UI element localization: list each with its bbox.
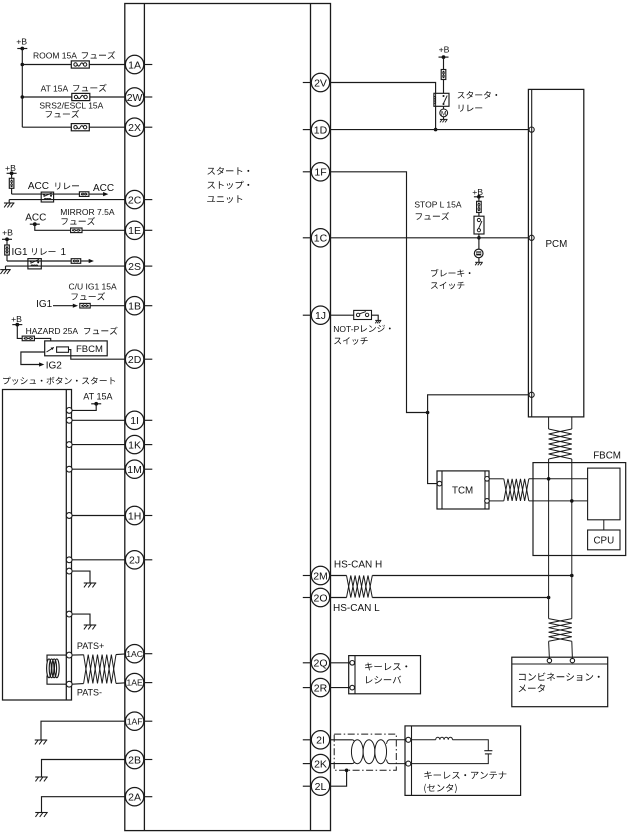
svg-text:IG1: IG1 [12,247,29,258]
wire pin 2K to antenna [330,763,352,765]
connector pin 1F [303,163,330,181]
junction dot CAN H bus [570,574,574,578]
wire NOT-P switch to ground [372,315,379,320]
fuse ACC output [79,192,89,197]
label fuse AT JP [73,84,107,92]
wire +B to ACC relay [11,173,13,194]
wire pin 2V to starter relay [330,83,436,130]
svg-text:1D: 1D [314,124,328,136]
antenna pin 1 [406,737,411,742]
svg-text:1H: 1H [128,510,141,522]
connector pin 2S [125,257,152,275]
NOT-P range switch box [354,310,372,319]
wire to pin 1A [22,64,125,66]
svg-text:CPU: CPU [593,536,614,547]
twisted pair HS-CAN [347,576,373,598]
svg-text:ACC: ACC [28,181,49,192]
TCM pin right 1 [485,477,490,482]
wire fuse to FBCM driver [34,338,50,346]
resistor in FBCM [57,347,69,352]
wire to pin 2X [22,126,125,128]
battery +B starter [439,45,450,59]
svg-text:1: 1 [61,247,67,258]
svg-text:FBCM: FBCM [76,344,103,355]
svg-text:2K: 2K [314,758,327,770]
battery +B node 4 [11,314,22,327]
ground IG1 relay coil [0,266,11,274]
ground ACC relay coil [4,200,15,208]
svg-text:2Q: 2Q [313,658,327,670]
FBCM transceiver block [588,468,620,520]
connector pin 2D [125,350,152,368]
ground brake switch [475,258,483,266]
svg-text:PATS+: PATS+ [77,641,104,651]
connector pin 2M [303,566,330,584]
receiver pin 1 [350,661,355,666]
svg-text:1K: 1K [128,439,141,451]
wire TCM CAN H [489,478,504,480]
connector pin 2V [303,73,330,91]
svg-text:C/U IG1 15A: C/U IG1 15A [69,282,118,292]
label IG1 relay 1 [12,247,67,258]
wire to pin 2W [22,96,125,98]
PCM pin 3 [529,392,534,397]
label keyless receiver [365,663,407,684]
wire +B to IG1 relay [6,239,8,261]
svg-text:1AF: 1AF [127,716,143,726]
switch pin f [66,557,72,563]
connector pin 2A [125,788,152,806]
svg-text:AT 15A: AT 15A [41,83,69,93]
svg-text:ROOM 15A: ROOM 15A [33,51,77,61]
connector pin 1AF [125,712,152,730]
switch pin c [66,442,72,448]
wire HS-CAN L to bus [372,597,548,599]
svg-text:+B: +B [5,163,16,173]
label push button start [3,377,115,385]
capacitor antenna [411,751,493,764]
wire IG1 relay coil to pin 2S [6,265,126,267]
junction dot 2V/1D [434,128,438,132]
connector pin 1J [303,306,330,324]
wire CAN H into FBCM internal [529,478,588,480]
junction dot ROOM branch [21,63,25,67]
svg-text:1AE: 1AE [126,678,143,688]
label starter relay [458,91,498,112]
wire pin 2M HS-CAN H [330,575,347,577]
switch pin PATS- [66,681,72,687]
svg-text:1M: 1M [127,464,142,476]
wire driver to pin 2D [69,350,126,360]
wire fuse to pin 1B [90,305,125,307]
svg-text:2O: 2O [313,592,327,604]
connector pin 1B [125,297,152,315]
svg-text:1AC: 1AC [126,649,143,659]
wire CAN H into FBCM [548,459,550,556]
svg-text:+B: +B [16,37,27,47]
connector pin 2X [125,118,152,136]
ground 1AF [35,739,48,741]
svg-text:PCM: PCM [546,239,568,250]
svg-text:1A: 1A [128,59,141,71]
svg-text:+B: +B [2,227,13,237]
wire pin 1J to NOT-P switch [330,314,354,316]
connector pin 2I [303,731,330,749]
fuse MIRROR 7.5A [60,207,115,233]
svg-text:1C: 1C [314,233,328,245]
wire CAN L into FBCM internal [529,500,588,502]
wire pin 2I to antenna [330,739,352,741]
wire arrow to ACC feed [89,192,108,196]
connector pin 1AE [125,673,152,691]
connector pin 2C [125,190,152,208]
svg-text:TCM: TCM [452,486,473,497]
connector pin 1H [125,506,152,524]
transistor driver in FBCM [47,347,54,352]
connector pin 1A [125,55,152,73]
CPU box [588,530,620,550]
switch pin e [66,513,72,519]
brake switch box [474,216,484,234]
TCM pin left [437,481,442,486]
svg-text:NOT-P: NOT-P [333,324,359,334]
wire +B to fuse STOP L [478,197,480,202]
wire to ground 1 [72,571,90,583]
meter pin 2 [570,658,574,662]
wire CAN L to meter [571,641,574,658]
connector pin 2O [303,588,330,606]
connector pin 1I [125,411,152,429]
antenna coil circuit [411,737,489,751]
wire to pin 1H [72,515,125,517]
wire pin 1F down to TCM branch [330,172,428,413]
label fuse C/U JP [72,292,106,300]
wire pin 1D to PCM [330,129,529,131]
switch pin PATS+ [66,652,72,658]
wire TCM CAN L [489,500,504,502]
switch pin a [66,408,72,414]
twisted pair PCM-FBCM [549,429,572,459]
svg-text:2B: 2B [128,754,141,766]
junction dot brake/1C [477,236,481,240]
label ACC relay [28,181,79,192]
connector pin 2Q [303,654,330,672]
connector pin 2K [303,754,330,772]
junction dot shield [345,769,349,773]
svg-text:ACC: ACC [25,212,46,223]
fuse ROOM 15A [33,51,89,69]
svg-text:1I: 1I [130,415,139,427]
label fuse HAZARD JP [84,327,118,335]
label keyless antenna [424,771,506,793]
label brake switch [431,269,471,289]
label STOP L fuse JP [416,212,450,220]
label NOT-P switch [333,324,390,345]
junction dot CAN L FBCM [570,499,574,503]
fuse vertical IG1 supply [5,245,10,255]
wire CAN bus left below FBCM [548,556,550,619]
connector pin 1M [125,460,152,478]
starter motor M [440,106,448,117]
svg-text:2X: 2X [128,122,141,134]
wire pin 1AF to ground [41,721,125,740]
switch pin d [66,466,72,472]
svg-text:1B: 1B [128,300,141,312]
fuse vertical starter supply [441,70,446,80]
wire to pin 2J [72,559,125,561]
relay ACC K1 box [41,192,53,202]
junction dot CAN L bus [547,596,551,600]
fuse vertical ACC supply [9,178,14,188]
svg-text:2J: 2J [129,555,140,567]
wire CAN L PCM down [571,417,573,429]
svg-text:2A: 2A [128,791,141,803]
fuse HAZARD 25A [22,326,78,341]
relay IG1-1 K2 box [28,259,41,269]
label fuse MIRROR JP [62,217,96,225]
wire +B to starter relay [443,57,445,93]
label fuse ROOM JP [82,51,116,59]
wire CAN L into FBCM [571,459,573,556]
fuse C/U IG1 15A [69,282,118,308]
svg-text:PATS-: PATS- [77,687,102,697]
twisted pair TCM-FBCM [504,479,529,501]
wire brake switch to 1C line [478,234,480,238]
svg-text:2D: 2D [128,354,142,366]
svg-text:HS-CAN L: HS-CAN L [333,603,380,614]
ground 2A [35,812,48,814]
wire IG1 relay contact output [7,260,71,262]
svg-text:FBCM: FBCM [593,450,621,461]
relay starter box [434,93,449,106]
switch pin h [66,611,72,617]
TCM box [437,471,489,509]
connector pin 1E [125,221,152,239]
wire pin 2R to receiver [330,687,351,689]
connector pin 2W [125,88,152,106]
meter pin 1 [547,658,551,662]
connector pin 2R [303,678,330,696]
ground push start 2 [84,624,97,626]
wire to pin 1K [72,444,125,446]
battery +B stop lamp [472,187,484,199]
junction dot CAN H FBCM [547,477,551,481]
body ground connector brake [474,238,483,258]
junction dot AT branch [21,95,25,99]
ground 2B [35,776,48,778]
svg-text:IG1: IG1 [36,299,53,310]
svg-text:2V: 2V [314,77,327,89]
twisted pair FBCM-meter [549,619,572,642]
PATS coil antenna in switch [47,655,67,684]
connector pin 1D [303,120,330,138]
label start-stop unit [207,167,249,203]
wire CAN H PCM down [548,417,550,429]
wire CAN H to meter [548,641,551,658]
svg-text:SRS2/ESCL 15A: SRS2/ESCL 15A [39,100,103,110]
battery +B node 1 [16,37,27,51]
wire pin 2A to ground [42,797,126,813]
svg-text:M: M [441,110,446,117]
svg-text:1E: 1E [128,225,141,237]
svg-text:HAZARD 25A: HAZARD 25A [26,326,79,336]
connector pin 2J [125,551,152,569]
svg-text:AT 15A: AT 15A [83,392,112,402]
svg-text:IG2: IG2 [46,360,63,371]
wire pin 2L to shield [330,770,347,786]
wire pin 2O HS-CAN L [330,597,347,599]
ground NOT-P switch [375,319,381,321]
fuse IG1 output [71,259,81,264]
wire pin 2Q to receiver [330,662,351,664]
wire pin 1C to PCM [330,237,529,239]
svg-text:1J: 1J [315,310,326,322]
shield box dash-dot [334,734,396,770]
keyless antenna box [405,726,521,796]
FBCM flasher module box [45,341,107,356]
svg-text:+B: +B [439,45,450,55]
battery +B node 3 [2,227,13,241]
antenna pin 2 [406,761,411,766]
ACC feed node [25,212,46,226]
wire branch to PCM bottom pin [428,395,529,413]
wire ACC to fuse MIRROR [35,224,126,230]
wire FBCM base to IG2 [21,352,45,367]
connector pin 2L [303,777,330,795]
svg-text:STOP L 15A: STOP L 15A [414,200,461,210]
battery +B node 2 [5,163,17,175]
wire +B bus down [21,49,23,128]
AT 15A feed node [83,392,112,406]
receiver pin 2 [350,685,355,690]
push button start switch box [3,390,72,701]
start-stop unit U1 box [125,4,331,831]
fuse SRS2/ESCL 15A [39,100,103,130]
svg-text:ACC: ACC [93,183,114,194]
svg-text:2I: 2I [316,735,325,747]
svg-text:2M: 2M [313,570,328,582]
wire ACC relay contact output [12,193,80,195]
label STOP L fuse [414,200,461,210]
wire pin 2B to ground [42,760,126,778]
wire arrow IG1 feed [81,259,94,263]
svg-text:2S: 2S [128,261,141,273]
junction dot TCM branch [426,411,430,415]
twisted loops antenna feed [351,740,407,764]
connector pin 2B [125,750,152,768]
svg-text:MIRROR 7.5A: MIRROR 7.5A [60,207,115,217]
svg-text:2C: 2C [128,194,142,206]
ground starter motor [440,117,448,123]
wire to ground 2 [72,614,90,625]
ground push start 1 [84,582,97,584]
switch pin g [66,568,72,574]
svg-text:HS-CAN H: HS-CAN H [334,560,382,571]
wire fuse to brake switch [478,213,480,217]
svg-text:1F: 1F [314,167,326,179]
svg-text:+B: +B [11,314,22,324]
wire IG1 to fuse C/U [53,304,78,308]
wire branch down to TCM [428,413,438,484]
svg-text:2R: 2R [314,682,328,694]
TCM pin right 2 [485,499,490,504]
PCM pin 1 [529,127,534,132]
wire transceiver to CPU [603,520,605,530]
connector pin 1C [303,229,330,247]
wire +B to fuse HAZARD [17,325,22,339]
wire AT feed to switch [72,404,96,411]
switch pin b [66,417,72,423]
svg-text:2W: 2W [127,92,143,104]
wire CAN bus right below FBCM [571,556,573,619]
label combination meter [519,673,600,693]
FBCM box [533,450,626,555]
PCM box [528,89,583,417]
wire to pin 1I [72,419,125,421]
connector pin 1K [125,435,152,453]
keyless receiver box [349,656,421,694]
svg-text:2L: 2L [315,781,327,793]
label fuse SRS JP [46,110,79,118]
wire ACC relay coil to pin 2C [9,199,125,201]
fuse vertical STOP L [477,201,482,212]
fuse AT 15A [41,83,90,100]
combination meter box [512,657,608,707]
twisted pair PATS [72,654,125,684]
wire to pin 1M [72,468,125,470]
wire HS-CAN H to bus [372,575,572,577]
PCM pin 2 [529,235,534,240]
connector pin 1AC [125,645,152,663]
